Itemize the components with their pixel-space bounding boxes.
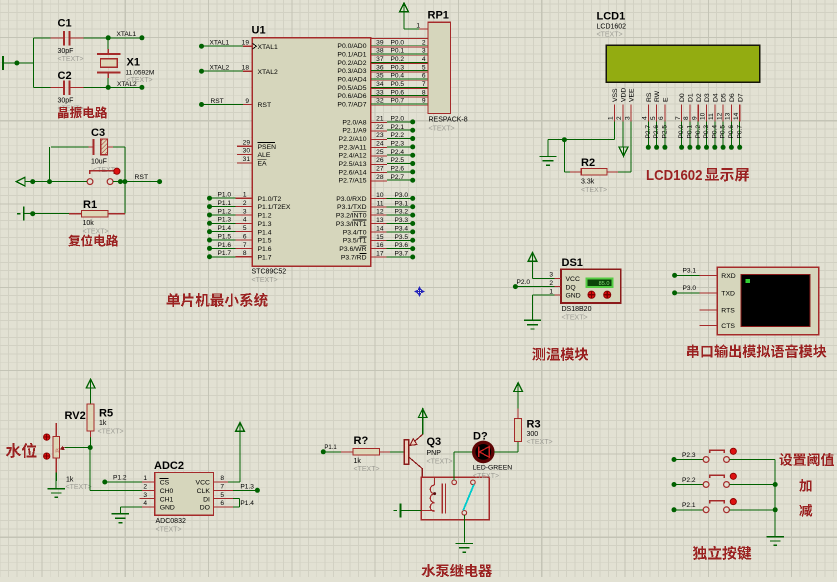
wire U1 pin 28 P2.7: [371, 180, 387, 182]
wire U1 P0.7 to RP1 pin 9: [371, 104, 428, 106]
svg-text:LCD1602: LCD1602: [597, 24, 627, 31]
svg-text:P3.3: P3.3: [395, 217, 409, 224]
svg-text:3: 3: [422, 48, 426, 55]
wire terminal to left bus: [3, 62, 33, 64]
node XTAL1 wire end: [139, 35, 144, 40]
wire U1 pin 12 P3.2: [371, 214, 387, 216]
svg-text:P2.5: P2.5: [662, 125, 669, 139]
svg-text:P0.4: P0.4: [391, 73, 405, 80]
svg-text:1: 1: [416, 23, 420, 30]
svg-text:7: 7: [422, 81, 426, 88]
svg-text:P2.3: P2.3: [682, 452, 696, 459]
svg-text:P1.6: P1.6: [218, 242, 232, 249]
svg-text:P1.1/T2EX: P1.1/T2EX: [258, 204, 291, 211]
svg-text:LED-GREEN: LED-GREEN: [473, 465, 513, 472]
label serial voice module: [687, 345, 699, 358]
svg-text:D?: D?: [473, 431, 488, 443]
svg-text:5: 5: [243, 225, 247, 232]
svg-text:P3.5/T1: P3.5/T1: [343, 238, 367, 245]
U1 pin 2 P1.1: [207, 204, 212, 209]
svg-text:<TEXT>: <TEXT>: [83, 229, 109, 236]
capacitor C1: [50, 37, 63, 39]
svg-text:P2.7: P2.7: [645, 125, 652, 139]
resistor R?: [341, 451, 353, 453]
svg-text:24: 24: [376, 140, 384, 147]
U1 pin 19 XTAL1: [199, 44, 204, 49]
svg-text:3.3k: 3.3k: [581, 179, 595, 186]
svg-text:10k: 10k: [83, 220, 95, 227]
svg-text:1k: 1k: [54, 448, 59, 453]
svg-text:28: 28: [376, 174, 384, 181]
svg-text:D0: D0: [679, 93, 686, 102]
svg-text:<TEXT>: <TEXT>: [127, 77, 153, 84]
svg-text:XTAL2: XTAL2: [210, 65, 230, 72]
svg-text:8: 8: [243, 250, 247, 257]
svg-text:DS1: DS1: [562, 257, 583, 269]
svg-text:RW: RW: [654, 90, 661, 102]
svg-text:P0.3: P0.3: [391, 64, 405, 71]
wire U1 pin 27 P2.6: [371, 172, 387, 174]
svg-text:P0.7/AD7: P0.7/AD7: [337, 101, 366, 108]
svg-text:1: 1: [143, 475, 147, 482]
svg-text:P2.6: P2.6: [653, 125, 660, 139]
wire C3 left branch down: [49, 147, 51, 182]
wire U1 P0.2 to RP1 pin 4: [371, 63, 428, 65]
svg-text:36: 36: [376, 64, 384, 71]
ground keys: [767, 536, 784, 538]
terminal bar left of relay: [400, 504, 402, 518]
wire U1 pin 23 P2.2: [371, 138, 387, 140]
svg-text:P0.0: P0.0: [678, 125, 685, 139]
svg-text:3: 3: [549, 272, 553, 279]
svg-text:8: 8: [683, 116, 690, 120]
svg-text:P0.7: P0.7: [391, 98, 405, 105]
terminal input left of crystal circuit: [2, 56, 4, 70]
svg-text:38: 38: [376, 48, 384, 55]
power terminal above RP1: [400, 3, 409, 12]
svg-text:VCC: VCC: [566, 276, 580, 283]
svg-text:CTS: CTS: [721, 323, 735, 330]
svg-text:XTAL1: XTAL1: [258, 44, 278, 51]
node keys common P2.2: [773, 482, 778, 487]
wire button right to RST: [113, 181, 160, 183]
svg-text:11: 11: [708, 113, 715, 120]
node R1 left: [30, 211, 35, 216]
svg-text:30pF: 30pF: [58, 48, 74, 55]
U1 pin 31 EA: [237, 162, 252, 164]
transistor Q3 PNP: [404, 440, 408, 465]
ground RV2: [55, 481, 57, 488]
ADC U ADC2 ADC0832 body: [155, 472, 214, 515]
svg-text:C3: C3: [91, 127, 105, 139]
svg-text:<TEXT>: <TEXT>: [98, 429, 124, 436]
svg-text:<TEXT>: <TEXT>: [473, 473, 499, 480]
svg-text:1k: 1k: [99, 420, 107, 427]
svg-text:P1.5: P1.5: [218, 233, 232, 240]
label independent keys: [693, 546, 707, 560]
svg-text:P2.1: P2.1: [682, 502, 696, 509]
svg-text:<TEXT>: <TEXT>: [527, 439, 553, 446]
label pump relay: [422, 564, 436, 577]
wire U1 pin 11 P3.1: [371, 206, 387, 208]
U1 pin 6 P1.5: [207, 238, 212, 243]
svg-text:P2.3: P2.3: [391, 140, 405, 147]
label minimal MCU system: [167, 293, 180, 307]
svg-text:D6: D6: [729, 93, 736, 102]
svg-text:C1: C1: [58, 18, 72, 30]
power terminal ADC2 VCC: [236, 423, 245, 432]
svg-text:30pF: 30pF: [58, 98, 74, 105]
svg-text:P1.5: P1.5: [258, 238, 272, 245]
wire LCD VEE to R2: [630, 122, 632, 172]
svg-text:P3.4/T0: P3.4/T0: [343, 229, 367, 236]
LCD1 screen: [606, 45, 760, 82]
wire U1 pin 14 P3.4: [371, 231, 387, 233]
svg-text:P1.3: P1.3: [258, 221, 272, 228]
wire C3 right branch down: [124, 147, 126, 214]
svg-text:RESPACK-8: RESPACK-8: [429, 117, 468, 124]
svg-text:5: 5: [220, 492, 224, 499]
button P2.1: [672, 507, 677, 512]
power terminal R3: [514, 383, 523, 392]
U1 pin 30 ALE: [237, 154, 252, 156]
svg-text:2: 2: [549, 280, 553, 287]
wire top to C1: [33, 37, 50, 39]
svg-text:<TEXT>: <TEXT>: [58, 56, 84, 63]
svg-text:LCD1602: LCD1602: [646, 167, 703, 184]
wire P3.0 to TXD: [672, 290, 677, 295]
IC U1 STC89C52 body: [252, 38, 370, 267]
svg-text:<TEXT>: <TEXT>: [354, 466, 380, 473]
svg-text:P2.7: P2.7: [391, 174, 405, 181]
wire U1 P0.5 to RP1 pin 7: [371, 88, 428, 90]
svg-text:P3.7: P3.7: [395, 251, 409, 258]
node reset row b: [47, 179, 52, 184]
svg-text:VCC: VCC: [196, 480, 210, 487]
svg-text:RST: RST: [211, 98, 224, 105]
svg-text:21: 21: [376, 116, 384, 123]
svg-text:P0.2: P0.2: [695, 125, 702, 139]
label minus: [799, 504, 812, 517]
svg-text:4: 4: [642, 116, 649, 120]
resistor R3: [515, 418, 522, 441]
svg-text:2: 2: [616, 116, 623, 120]
svg-text:P3.0: P3.0: [395, 192, 409, 199]
svg-text:<TEXT>: <TEXT>: [252, 277, 278, 284]
relay contacts: [452, 480, 457, 485]
label reset circuit: [68, 235, 80, 247]
svg-text:PSEN: PSEN: [258, 144, 277, 151]
svg-text:CH0: CH0: [160, 488, 174, 495]
U1 pin 18 XTAL2: [199, 69, 204, 74]
LED D? LED-GREEN: [474, 442, 493, 461]
svg-text:25: 25: [376, 149, 384, 156]
power terminal LCD VDD: [622, 122, 624, 148]
U1 pin 8 P1.7: [207, 254, 212, 259]
svg-text:31: 31: [243, 156, 251, 163]
svg-text:3: 3: [624, 116, 631, 120]
wire U1 pin 26 P2.5: [371, 163, 387, 165]
origin marker: [415, 287, 425, 297]
svg-text:P2.7/A15: P2.7/A15: [339, 178, 367, 185]
wire keys common: [774, 460, 776, 536]
button P2.3: [672, 457, 677, 462]
svg-text:10uF: 10uF: [91, 159, 107, 166]
svg-text:GND: GND: [160, 505, 175, 512]
svg-text:P2.1/A9: P2.1/A9: [342, 128, 366, 135]
wire U1 P0.0 to RP1 pin 2: [371, 46, 428, 48]
svg-text:P0.4: P0.4: [711, 125, 718, 139]
svg-text:4: 4: [243, 217, 247, 224]
wire RP1 pin 1: [404, 28, 419, 30]
svg-text:P3.1: P3.1: [395, 200, 409, 207]
wire P1.1 to R?: [321, 449, 326, 454]
svg-text:P0.5: P0.5: [391, 81, 405, 88]
wire C2 to XTAL2 node: [84, 86, 142, 88]
svg-text:D1: D1: [688, 93, 695, 102]
svg-text:P0.5: P0.5: [720, 125, 727, 139]
svg-text:VEE: VEE: [629, 88, 636, 102]
relay coil: [430, 485, 434, 511]
svg-text:P2.6: P2.6: [391, 165, 405, 172]
svg-text:1: 1: [243, 192, 247, 199]
svg-text:R5: R5: [99, 408, 113, 420]
svg-text:2: 2: [243, 200, 247, 207]
power terminal DS1 VCC: [532, 261, 534, 278]
svg-text:P2.2: P2.2: [682, 477, 696, 484]
label crystal circuit: [58, 107, 69, 118]
svg-text:P3.7/RD: P3.7/RD: [341, 254, 367, 261]
node XTAL2 wire end: [139, 85, 144, 90]
label water level: [6, 443, 21, 458]
svg-text:11.0592M: 11.0592M: [126, 70, 155, 77]
virtual terminal body: [717, 267, 818, 335]
svg-text:6: 6: [220, 500, 224, 507]
svg-text:10: 10: [700, 112, 707, 120]
svg-text:P1.6: P1.6: [258, 246, 272, 253]
wire U1 pin 17 P3.7: [371, 256, 387, 258]
virtual terminal screen: [741, 275, 810, 327]
svg-text:12: 12: [376, 209, 384, 216]
button RST switch: [89, 170, 115, 172]
svg-text:32: 32: [376, 98, 384, 105]
U1 pin 1 P1.0: [207, 196, 212, 201]
node on terminal wire: [14, 61, 19, 66]
U1 pin 7 P1.6: [207, 246, 212, 251]
svg-text:P3.0/RXD: P3.0/RXD: [336, 196, 366, 203]
resistor R5: [87, 404, 94, 431]
wire U1 P0.6 to RP1 pin 8: [371, 96, 428, 98]
svg-text:P2.0: P2.0: [517, 279, 531, 286]
wire U1 pin 25 P2.4: [371, 155, 387, 157]
DS1 pin 1 GND: [554, 294, 561, 296]
svg-text:39: 39: [376, 39, 384, 46]
svg-text:85.0: 85.0: [599, 281, 610, 287]
svg-text:P0.3/AD3: P0.3/AD3: [337, 68, 366, 75]
U1 pin 3 P1.2: [207, 212, 212, 217]
svg-text:RS: RS: [646, 92, 653, 102]
node VSS R2 junction: [562, 137, 567, 142]
svg-text:XTAL1: XTAL1: [117, 31, 137, 38]
svg-text:DQ: DQ: [566, 284, 576, 291]
button P2.2: [672, 482, 677, 487]
wire U1 P0.4 to RP1 pin 6: [371, 79, 428, 81]
svg-text:P3.1/TXD: P3.1/TXD: [337, 204, 367, 211]
wire U1 pin 16 P3.6: [371, 248, 387, 250]
svg-text:P1.2: P1.2: [258, 213, 272, 220]
U1 pin 9 RST: [199, 102, 204, 107]
svg-text:5: 5: [422, 64, 426, 71]
svg-text:XTAL1: XTAL1: [210, 40, 230, 47]
label temperature module: [532, 348, 545, 361]
power terminal above R5: [86, 379, 95, 388]
svg-text:P1.0/T2: P1.0/T2: [258, 196, 282, 203]
wire LCD VSS to ground: [614, 122, 616, 140]
resistor pack RP1: [428, 22, 451, 113]
svg-text:P1.7: P1.7: [258, 254, 272, 261]
svg-text:30: 30: [243, 148, 251, 155]
svg-text:2: 2: [422, 39, 426, 46]
wire U1 P0.3 to RP1 pin 5: [371, 71, 428, 73]
svg-text:P1.4: P1.4: [240, 500, 254, 507]
node keys common P2.1: [773, 507, 778, 512]
svg-text:<TEXT>: <TEXT>: [562, 315, 588, 322]
svg-text:7: 7: [675, 116, 682, 120]
wire U1 pin 15 P3.5: [371, 239, 387, 241]
svg-text:ADC2: ADC2: [154, 460, 184, 472]
svg-text:DS18B20: DS18B20: [562, 306, 592, 313]
svg-text:Q3: Q3: [427, 436, 442, 448]
ground relay common: [463, 515, 465, 542]
U1 pin 4 P1.3: [207, 221, 212, 226]
svg-text:37: 37: [376, 56, 384, 63]
node RST wire end: [157, 179, 162, 184]
svg-text:23: 23: [376, 132, 384, 139]
svg-text:<TEXT>: <TEXT>: [429, 126, 455, 133]
svg-text:RV2: RV2: [65, 410, 86, 422]
svg-text:P3.6: P3.6: [395, 242, 409, 249]
svg-text:TXD: TXD: [721, 291, 735, 298]
wire U1 pin 13 P3.3: [371, 223, 387, 225]
svg-text:10: 10: [376, 192, 384, 199]
svg-text:6: 6: [658, 116, 665, 120]
svg-text:CLK: CLK: [197, 488, 211, 495]
svg-text:ADC0832: ADC0832: [156, 518, 186, 525]
ADC2 pin 4 GND: [142, 506, 155, 508]
svg-text:4: 4: [143, 500, 147, 507]
U1 pin 29 PSEN: [237, 145, 252, 147]
svg-text:1k: 1k: [354, 458, 362, 465]
svg-text:14: 14: [733, 112, 740, 120]
svg-text:XTAL2: XTAL2: [258, 69, 278, 76]
svg-text:D4: D4: [712, 93, 719, 102]
wire C1 to XTAL1 node: [84, 37, 142, 39]
svg-text:P3.2/INT0: P3.2/INT0: [336, 213, 367, 220]
svg-text:P0.5/AD5: P0.5/AD5: [337, 85, 366, 92]
svg-text:ALE: ALE: [258, 152, 271, 159]
svg-text:<TEXT>: <TEXT>: [66, 484, 92, 491]
relay RL body: [421, 477, 489, 519]
svg-text:<TEXT>: <TEXT>: [156, 527, 182, 534]
label set threshold: [779, 453, 792, 466]
terminal arrow left of reset wire: [16, 177, 25, 186]
ADC2 pin 1 CS: [142, 481, 155, 483]
svg-text:VDD: VDD: [620, 88, 627, 102]
wire U1 pin 22 P2.1: [371, 130, 387, 132]
svg-text:RTS: RTS: [721, 307, 735, 314]
svg-text:16: 16: [376, 242, 384, 249]
svg-text:35: 35: [376, 73, 384, 80]
svg-text:<TEXT>: <TEXT>: [581, 187, 607, 194]
ground ADC2: [120, 506, 141, 508]
svg-text:26: 26: [376, 157, 384, 164]
svg-text:CH1: CH1: [160, 496, 174, 503]
label plus: [799, 479, 811, 492]
svg-text:3: 3: [243, 208, 247, 215]
svg-text:R3: R3: [527, 419, 541, 431]
DS1 pin 3 VCC: [554, 277, 561, 279]
svg-text:8: 8: [220, 475, 224, 482]
svg-text:P0.6/AD6: P0.6/AD6: [337, 93, 366, 100]
svg-text:P1.4: P1.4: [218, 225, 232, 232]
power terminal Q3 emitter: [418, 409, 427, 418]
svg-text:P3.0: P3.0: [683, 285, 697, 292]
node XTAL2 junction: [106, 85, 111, 90]
svg-text:<TEXT>: <TEXT>: [597, 32, 623, 39]
wire RV2 wiper to ADC CH0: [89, 448, 91, 491]
svg-text:P0.2/AD2: P0.2/AD2: [337, 60, 366, 67]
DS1 adjust buttons: [588, 291, 595, 298]
wire U1 pin 10 P3.0: [371, 197, 387, 199]
svg-text:33: 33: [376, 89, 384, 96]
svg-text:PNP: PNP: [427, 450, 442, 457]
svg-text:P2.0: P2.0: [391, 116, 405, 123]
wire left vertical bus: [32, 38, 34, 88]
wire LED anode to R3: [494, 451, 518, 453]
wire P1.2 to ADC CS: [102, 480, 107, 485]
svg-text:P2.6/A14: P2.6/A14: [339, 169, 367, 176]
svg-text:P0.7: P0.7: [736, 125, 743, 139]
svg-text:34: 34: [376, 81, 384, 88]
svg-text:EA: EA: [258, 161, 268, 168]
svg-text:P2.5: P2.5: [391, 157, 405, 164]
svg-text:17: 17: [376, 251, 384, 258]
node button junction 2: [122, 179, 127, 184]
svg-text:27: 27: [376, 165, 384, 172]
svg-text:R2: R2: [581, 157, 595, 169]
wire reset row: [25, 181, 87, 183]
svg-text:13: 13: [725, 112, 732, 120]
svg-text:2: 2: [143, 484, 147, 491]
svg-text:P1.4: P1.4: [258, 229, 272, 236]
ADC2 pin 8 VCC to power: [214, 481, 229, 483]
svg-text:P1.2: P1.2: [113, 474, 127, 481]
svg-text:7: 7: [220, 484, 224, 491]
svg-text:8: 8: [422, 89, 426, 96]
wire U1 P0.1 to RP1 pin 3: [371, 54, 428, 56]
wire U1 pin 21 P2.0: [371, 122, 387, 124]
svg-text:P1.0: P1.0: [218, 192, 232, 199]
svg-text:9: 9: [245, 98, 249, 105]
svg-text:<TEXT>: <TEXT>: [427, 459, 453, 466]
svg-text:E: E: [663, 97, 670, 102]
svg-text:7: 7: [243, 242, 247, 249]
svg-text:CS: CS: [160, 480, 170, 487]
svg-text:DO: DO: [200, 505, 210, 512]
svg-text:18: 18: [242, 65, 250, 72]
svg-text:6: 6: [243, 233, 247, 240]
svg-text:1: 1: [608, 116, 615, 120]
